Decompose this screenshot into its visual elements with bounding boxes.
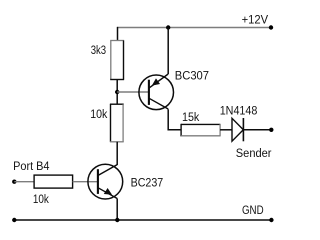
svg-text:Port B4: Port B4: [13, 159, 49, 173]
svg-text:1N4148: 1N4148: [220, 104, 258, 118]
svg-text:3k3: 3k3: [91, 43, 106, 57]
terminal dot GND left: [12, 218, 16, 222]
terminal dot GND right: [269, 218, 273, 222]
terminal dot Sender: [269, 128, 273, 132]
junction dot at base node of BC307: [115, 90, 119, 94]
wire R 10k to BC237 base: [73, 181, 98, 183]
terminal dot +12V right end: [269, 25, 273, 29]
wire vertical from +12V rail corner to R 3k3 top: [117, 27, 119, 41]
svg-text:BC237: BC237: [131, 176, 164, 190]
wire from R 10k bottom to BC237 collector: [116, 142, 118, 165]
svg-text:10k: 10k: [33, 192, 50, 206]
diode D1 1N4148: [232, 118, 243, 141]
resistor R1 3k3 body: [110, 41, 124, 80]
wire Port B4 terminal to R 10k: [14, 181, 34, 183]
svg-text:GND: GND: [242, 203, 264, 217]
wire BC307 collector down and right to R 15k: [168, 109, 181, 130]
svg-text:BC307: BC307: [175, 69, 209, 83]
resistor R3 15k body (horizontal): [181, 124, 220, 137]
node +12V rail: [117, 27, 271, 29]
svg-text:10k: 10k: [90, 107, 108, 121]
junction dot on +12V rail above BC307: [166, 25, 170, 29]
wire BC307 emitter up to +12V rail: [167, 28, 169, 75]
transistor Q1 BC307 (PNP): [139, 74, 174, 110]
svg-text:+12V: +12V: [242, 13, 269, 27]
node GND rail: [14, 219, 271, 221]
transistor Q2 BC237 (NPN): [88, 164, 123, 199]
terminal dot Port B4: [12, 180, 16, 184]
svg-text:Sender: Sender: [236, 146, 272, 160]
wire R 15k to diode anode: [220, 129, 232, 131]
wire BC237 emitter down to GND rail: [116, 199, 118, 221]
junction dot GND below BC237: [115, 218, 119, 222]
wire base lead to BC307: [117, 91, 149, 93]
svg-text:15k: 15k: [182, 110, 200, 124]
resistor R2 10k body (vertical): [110, 104, 124, 142]
wire from R 3k3 bottom to R 10k top: [116, 80, 118, 105]
resistor R4 10k body (horizontal): [34, 175, 73, 188]
wire diode cathode to Sender terminal: [243, 129, 271, 131]
